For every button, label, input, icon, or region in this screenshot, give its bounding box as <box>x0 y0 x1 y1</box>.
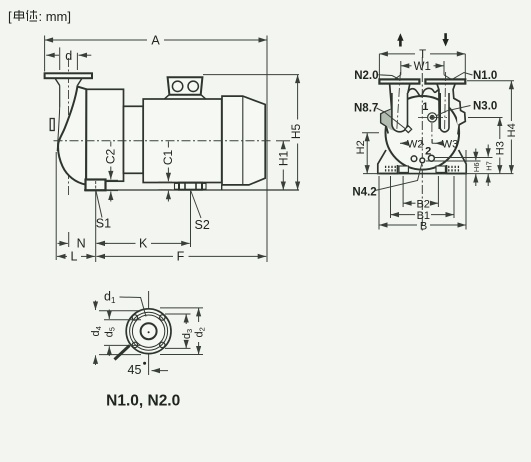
svg-text:H5: H5 <box>289 124 303 140</box>
connection 1 target <box>418 116 447 118</box>
svg-text:F: F <box>177 250 185 264</box>
inlet flange <box>45 73 92 78</box>
dimension N <box>58 242 68 244</box>
svg-text:H7: H7 <box>485 161 494 171</box>
svg-text:N4.2: N4.2 <box>352 186 376 198</box>
dimension H1 <box>276 140 290 142</box>
dimension F <box>97 255 174 257</box>
flow arrow down <box>444 33 447 40</box>
dimension H6 <box>426 160 481 162</box>
flange detail centerline <box>148 291 150 375</box>
svg-text:K: K <box>139 237 148 251</box>
svg-text:W2: W2 <box>407 138 424 150</box>
svg-text:B: B <box>420 221 427 233</box>
dimension d2 <box>160 307 203 309</box>
foot hatch <box>385 166 387 173</box>
svg-text:: mm]: : mm] <box>39 9 72 24</box>
right port tower <box>437 84 439 129</box>
svg-text:H4: H4 <box>506 123 518 137</box>
lantern bracket <box>124 106 144 173</box>
casing lug <box>50 119 54 131</box>
svg-text:1: 1 <box>422 101 428 113</box>
casing crown <box>408 88 439 96</box>
right foot <box>447 150 467 174</box>
svg-text:C2: C2 <box>104 149 118 165</box>
svg-text:[: [ <box>8 9 12 24</box>
left flange plate <box>379 79 419 83</box>
right flange plate <box>425 79 465 83</box>
svg-text:C1: C1 <box>161 150 175 166</box>
drain S2 fitting <box>175 183 207 189</box>
dimension H7 <box>435 157 493 159</box>
left port bore <box>392 93 408 132</box>
dimension H2 <box>362 132 379 134</box>
right port bore <box>440 93 449 132</box>
base line <box>363 173 514 175</box>
ledge shading left <box>381 109 396 131</box>
dimension L <box>57 255 67 257</box>
svg-text:H6: H6 <box>472 163 481 173</box>
svg-text:S1: S1 <box>96 217 111 231</box>
svg-text:H2: H2 <box>355 140 367 154</box>
dimension d5 <box>104 319 141 321</box>
svg-text:L: L <box>71 250 78 264</box>
inlet port axis <box>68 58 70 195</box>
svg-text:N3.0: N3.0 <box>473 101 497 113</box>
dimension A <box>44 36 46 72</box>
bottom extension lines <box>55 152 57 260</box>
motor foot step <box>221 185 223 190</box>
svg-text:A: A <box>151 33 160 47</box>
port axes <box>397 72 401 130</box>
svg-text:H3: H3 <box>495 141 507 155</box>
svg-text:N8.7: N8.7 <box>354 103 378 115</box>
flange outer circle <box>126 309 171 354</box>
dimension C1 <box>158 181 172 183</box>
pump casing bracket <box>86 89 123 181</box>
dimension B <box>378 176 380 230</box>
45 degree mark <box>115 346 130 360</box>
svg-text:H1: H1 <box>276 151 290 167</box>
svg-text:N2.0: N2.0 <box>354 70 378 82</box>
shaft centerline <box>54 140 271 142</box>
dimension W2 <box>400 142 409 144</box>
main circular body <box>386 96 460 170</box>
dimension T <box>378 54 380 79</box>
dimension H5 <box>203 74 299 76</box>
leader S1 <box>96 191 102 218</box>
terminal box <box>168 77 203 94</box>
terminal box eyes <box>172 81 182 91</box>
valve diamond <box>405 126 412 133</box>
motor body <box>143 99 222 183</box>
dimension W3 <box>432 139 435 143</box>
svg-text:W3: W3 <box>442 138 459 150</box>
volute inner wall <box>57 107 60 151</box>
left foot <box>378 150 398 174</box>
view centerline <box>421 57 423 231</box>
flange raised face circles <box>130 312 168 350</box>
dimension B1 <box>390 176 392 218</box>
ground line <box>84 189 299 191</box>
dimension B2 <box>402 176 404 207</box>
svg-text:45: 45 <box>128 363 142 377</box>
svg-text:N: N <box>77 237 86 251</box>
dimension H3 <box>468 117 503 119</box>
left port tower <box>381 84 392 134</box>
leader S2 <box>191 190 202 218</box>
volute casing <box>58 87 86 185</box>
dimension K <box>97 242 136 244</box>
dimension d3 <box>165 313 191 315</box>
drain holes bottom <box>411 156 417 162</box>
dimension W1 <box>400 61 402 75</box>
section arrow <box>152 370 169 372</box>
svg-text:B2: B2 <box>416 199 429 211</box>
flange neck <box>55 78 82 85</box>
dimension d4 <box>99 310 141 312</box>
dimension H4 <box>467 80 514 82</box>
fan cowl <box>222 96 265 185</box>
drain S1 block <box>86 180 106 191</box>
flange bolt holes <box>132 315 137 320</box>
flange bore <box>141 323 157 339</box>
dimension d <box>59 47 61 70</box>
svg-text:N1.0, N2.0: N1.0, N2.0 <box>106 393 180 410</box>
svg-text:S2: S2 <box>195 218 210 232</box>
flow arrow up <box>399 39 402 47</box>
dimension C2 <box>106 179 119 181</box>
